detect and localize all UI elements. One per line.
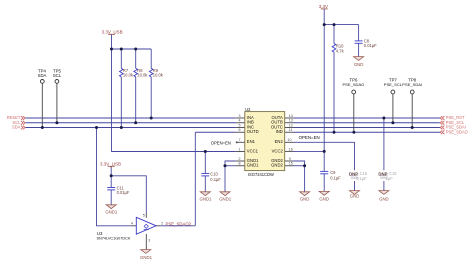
- svg-text:GND1: GND1: [200, 197, 213, 202]
- svg-text:6: 6: [239, 128, 241, 132]
- svg-text:U2: U2: [245, 107, 251, 112]
- svg-text:2: 2: [239, 157, 241, 161]
- svg-text:OPEN=EN: OPEN=EN: [299, 135, 320, 140]
- svg-text:VCC2: VCC2: [272, 148, 284, 153]
- svg-text:3.3V_USB: 3.3V_USB: [102, 29, 123, 34]
- svg-text:SDA: SDA: [12, 125, 21, 130]
- svg-text:GND1: GND1: [219, 197, 232, 202]
- svg-text:SCL: SCL: [53, 73, 62, 78]
- svg-text:2: 2: [161, 222, 163, 226]
- svg-text:3: 3: [239, 114, 241, 118]
- svg-text:12: 12: [289, 123, 293, 127]
- svg-text:0.01µF: 0.01µF: [364, 43, 377, 48]
- svg-text:U3: U3: [97, 231, 103, 236]
- svg-text:5: 5: [143, 213, 145, 217]
- svg-text:1: 1: [239, 148, 241, 152]
- svg-text:16: 16: [289, 148, 293, 152]
- svg-text:0.01µF: 0.01µF: [117, 190, 130, 195]
- svg-text:15: 15: [289, 162, 293, 166]
- svg-text:ISO7241CDW: ISO7241CDW: [248, 172, 274, 177]
- svg-text:OPEN=EN: OPEN=EN: [211, 140, 231, 145]
- svg-text:1µF: 1µF: [386, 176, 394, 181]
- svg-text:3: 3: [148, 238, 150, 242]
- svg-text:3.3V: 3.3V: [319, 4, 328, 9]
- svg-text:4: 4: [239, 119, 241, 123]
- svg-text:13: 13: [289, 119, 293, 123]
- svg-text:C9: C9: [330, 170, 336, 175]
- svg-text:PSE_SDAO2: PSE_SDAO2: [166, 221, 192, 226]
- svg-text:PSE_SDAI: PSE_SDAI: [402, 82, 422, 87]
- svg-text:VCC1: VCC1: [247, 149, 259, 154]
- svg-text:10.0k: 10.0k: [137, 72, 148, 77]
- svg-text:GND1: GND1: [105, 209, 118, 214]
- svg-text:EN2: EN2: [275, 139, 284, 144]
- svg-text:PSE_SDAO: PSE_SDAO: [342, 82, 364, 87]
- svg-text:IND: IND: [276, 129, 283, 134]
- svg-text:0.1µF: 0.1µF: [210, 177, 221, 182]
- svg-text:10.0k: 10.0k: [123, 72, 134, 77]
- svg-text:8: 8: [239, 162, 241, 166]
- svg-text:GND: GND: [319, 197, 329, 202]
- svg-text:5: 5: [239, 123, 241, 127]
- svg-text:9: 9: [289, 157, 291, 161]
- svg-text:PSE_SDAO: PSE_SDAO: [446, 129, 468, 134]
- svg-text:GND1: GND1: [247, 163, 259, 168]
- svg-text:14: 14: [289, 114, 293, 118]
- svg-text:EN1: EN1: [247, 139, 256, 144]
- svg-text:4: 4: [131, 222, 133, 226]
- svg-text:GND2: GND2: [271, 163, 283, 168]
- svg-text:GND: GND: [379, 197, 389, 202]
- svg-text:0.1µF: 0.1µF: [330, 175, 341, 180]
- svg-text:GND: GND: [354, 62, 364, 67]
- svg-text:GND: GND: [300, 197, 310, 202]
- svg-text:PSE_SCL: PSE_SCL: [384, 82, 403, 87]
- svg-text:4.7k: 4.7k: [336, 48, 345, 53]
- svg-text:GND1: GND1: [140, 255, 153, 260]
- svg-text:11: 11: [289, 128, 293, 132]
- svg-text:GND: GND: [350, 194, 360, 199]
- svg-text:3.3V_USB: 3.3V_USB: [100, 161, 121, 166]
- svg-text:10: 10: [288, 138, 292, 142]
- svg-text:OUTD: OUTD: [247, 129, 259, 134]
- svg-text:0.1µF: 0.1µF: [356, 176, 367, 181]
- svg-text:7: 7: [239, 138, 241, 142]
- svg-text:SDA: SDA: [38, 73, 47, 78]
- svg-text:10.0k: 10.0k: [153, 72, 164, 77]
- svg-text:SN74LVC1G07DCK: SN74LVC1G07DCK: [97, 237, 131, 241]
